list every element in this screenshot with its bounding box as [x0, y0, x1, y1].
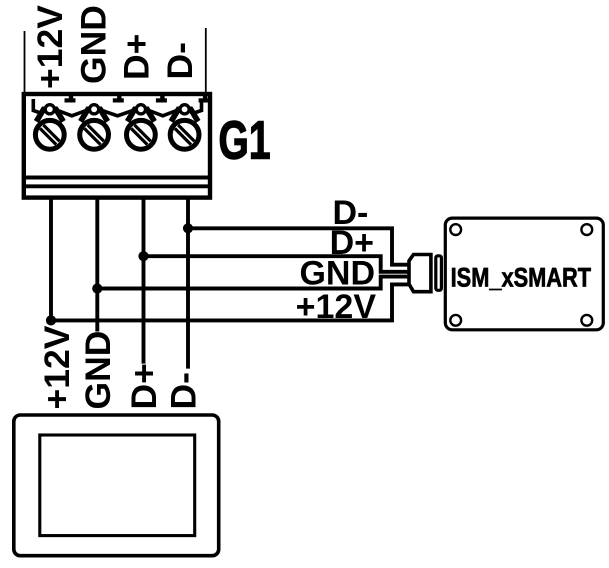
top tab 2	[113, 95, 124, 103]
connector comb wall left	[33, 99, 42, 114]
svg-text:ISM_xSMART: ISM_xSMART	[451, 263, 592, 293]
screw 2	[80, 120, 109, 149]
top tab 3	[156, 95, 167, 103]
top tab 4	[199, 95, 210, 103]
clamp screw head 1	[45, 105, 54, 114]
module screw hole TL	[450, 224, 461, 235]
extension line left	[24, 31, 26, 92]
module screw hole BL	[450, 315, 461, 326]
clamp jaw 2	[81, 109, 108, 121]
screw 3	[126, 120, 155, 149]
display device screen	[40, 435, 195, 536]
wire +12V vertical	[49, 196, 53, 321]
node D+ junction	[138, 251, 148, 261]
svg-text:D+: D+	[116, 34, 156, 80]
wire D- vertical	[186, 196, 190, 369]
screw 4	[170, 120, 199, 149]
node GND junction	[92, 283, 102, 293]
plug collar	[436, 256, 442, 290]
comb dip 1	[58, 111, 86, 116]
svg-text:GND: GND	[78, 331, 118, 410]
node D- junction	[183, 223, 193, 233]
wire GND run	[97, 277, 409, 289]
clamp screw head 3	[136, 105, 145, 114]
wire D+ run	[144, 256, 410, 272]
svg-text:GND: GND	[299, 255, 375, 293]
module screw hole TR	[581, 224, 592, 235]
clamp jaw 1	[36, 109, 63, 121]
wire D- run	[188, 228, 409, 264]
svg-text:D-: D-	[164, 372, 204, 409]
svg-text:G1: G1	[219, 110, 271, 170]
comb dip 2	[102, 111, 133, 116]
svg-text:+12V: +12V	[37, 325, 77, 409]
module ISM_xSMART body	[445, 218, 603, 330]
extension line right	[205, 28, 207, 92]
plug body	[409, 255, 431, 292]
svg-text:GND: GND	[74, 5, 114, 84]
connector skirt line 1	[26, 176, 208, 180]
wire GND vertical	[95, 196, 99, 332]
clamp screw head 4	[180, 105, 189, 114]
clamp screw head 2	[90, 105, 99, 114]
top tab 1	[65, 95, 76, 103]
node +12V junction	[46, 315, 56, 325]
svg-text:D-: D-	[160, 42, 200, 79]
clamp jaw 4	[171, 109, 198, 121]
svg-text:D+: D+	[124, 363, 164, 409]
display device outline	[14, 415, 219, 556]
svg-text:+12V: +12V	[30, 5, 70, 89]
clamp jaw 3	[127, 109, 154, 121]
wire D+ vertical	[142, 196, 146, 364]
svg-text:+12V: +12V	[296, 288, 377, 326]
connector G1 body	[24, 94, 210, 198]
connector comb wall right	[193, 99, 202, 114]
connector skirt line 2	[26, 184, 208, 188]
wire +12V run	[51, 284, 409, 320]
module screw hole BR	[581, 315, 592, 326]
screw 1	[35, 120, 64, 149]
comb dip 3	[149, 111, 177, 116]
